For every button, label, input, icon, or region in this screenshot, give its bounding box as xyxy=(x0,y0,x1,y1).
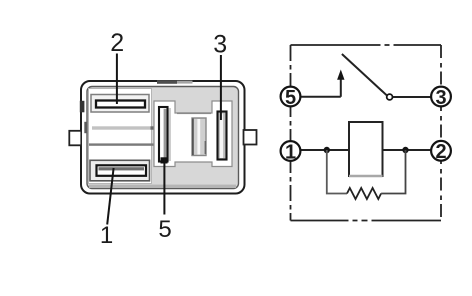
crossbar top shade xyxy=(177,112,211,114)
coil bottom gray edge xyxy=(349,175,383,177)
wire contact to terminal 3 xyxy=(393,96,431,98)
divider band light xyxy=(92,126,154,129)
top keying dash gray xyxy=(177,81,193,84)
pin 5 slot xyxy=(159,107,168,162)
pin 1 slot shade xyxy=(99,167,145,170)
terminal 1 xyxy=(281,141,301,161)
pin 5 slot inner shade xyxy=(164,109,167,160)
top keying dash dark xyxy=(157,80,177,84)
svg-text:3: 3 xyxy=(435,87,446,109)
wire coil to terminal 2 xyxy=(383,149,431,151)
pin 3 slot stripe xyxy=(220,114,223,159)
svg-text:3: 3 xyxy=(213,31,227,59)
leader line 5 xyxy=(163,159,165,215)
left mounting tab xyxy=(69,131,81,146)
switch blade xyxy=(342,54,387,95)
svg-text:1: 1 xyxy=(285,141,296,163)
svg-text:2: 2 xyxy=(435,141,446,163)
schematic enclosure right xyxy=(440,45,442,221)
center small socket stripe xyxy=(197,119,200,155)
relay body outer case xyxy=(81,81,245,194)
leader line 1 xyxy=(107,168,113,225)
center H-shaped cavity xyxy=(154,101,232,167)
pin 5 slot shadow xyxy=(168,108,171,161)
armature arrow head xyxy=(337,70,344,80)
resistor R1 zigzag xyxy=(347,188,381,199)
terminal 3 xyxy=(431,87,451,107)
coil L1 xyxy=(349,122,383,176)
pin 3 slot xyxy=(218,112,227,160)
center small socket right edge marks xyxy=(205,141,207,154)
pin 5 slot bottom blob xyxy=(161,157,168,163)
junction dot left xyxy=(324,147,330,153)
center small socket left edge xyxy=(192,119,194,156)
svg-text:5: 5 xyxy=(158,216,171,243)
left border mid blob xyxy=(84,122,87,133)
svg-text:1: 1 xyxy=(100,222,113,249)
resistor branch right wire xyxy=(381,150,405,194)
switch contact xyxy=(387,94,393,100)
svg-text:5: 5 xyxy=(285,87,296,109)
pin 1 slot xyxy=(97,165,147,176)
leader line 3 xyxy=(220,55,222,120)
divider band right end mark xyxy=(151,126,155,129)
armature arrow shaft xyxy=(340,79,342,97)
divider line dark xyxy=(89,143,156,145)
wire terminal 5 to armature xyxy=(301,96,341,98)
right mounting tab xyxy=(244,130,257,145)
left white cavity column xyxy=(89,89,152,184)
pin 2 socket frame xyxy=(91,95,149,113)
terminal 2 xyxy=(431,141,451,161)
cover over tab overlap xyxy=(82,129,85,148)
leader line 2 xyxy=(116,54,118,105)
junction dot right xyxy=(402,147,408,153)
schematic enclosure top xyxy=(291,44,442,46)
relay body inner case line xyxy=(87,87,239,189)
svg-text:2: 2 xyxy=(110,29,124,57)
pin 2 slot xyxy=(96,101,145,108)
wire terminal 1 to coil xyxy=(301,149,349,151)
interior bottom shade band xyxy=(89,185,236,188)
terminal 5 xyxy=(281,87,301,107)
schematic enclosure bottom xyxy=(291,220,442,222)
left border keying blob xyxy=(80,101,85,113)
pin 1 socket frame xyxy=(90,160,150,181)
resistor branch left wire xyxy=(327,150,347,194)
schematic enclosure left xyxy=(290,45,292,221)
center small socket xyxy=(192,118,206,156)
